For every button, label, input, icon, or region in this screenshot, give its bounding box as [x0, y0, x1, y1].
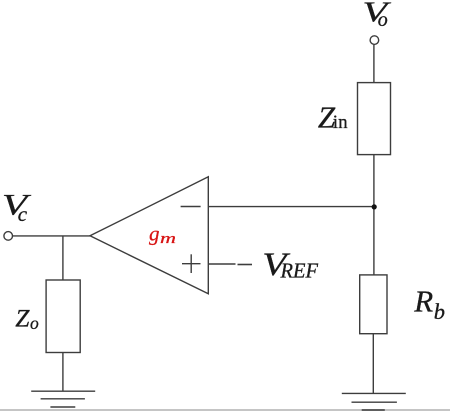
svg-text:in: in: [333, 112, 348, 133]
svg-text:c: c: [18, 202, 28, 226]
svg-text:o: o: [30, 313, 39, 333]
svg-text:REF: REF: [280, 259, 319, 283]
svg-text:g: g: [149, 222, 160, 246]
svg-text:V: V: [2, 188, 32, 221]
svg-text:b: b: [434, 299, 445, 324]
svg-text:m: m: [160, 231, 176, 247]
svg-text:o: o: [378, 9, 388, 31]
svg-text:R: R: [413, 284, 433, 319]
svg-text:Z: Z: [15, 304, 30, 333]
